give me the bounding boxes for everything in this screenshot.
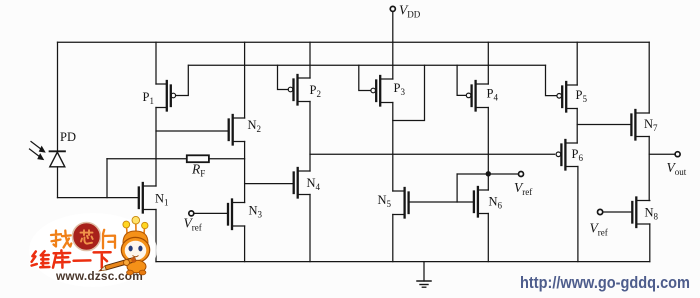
wire N5 source drop: [392, 215, 394, 262]
watermark white glow: [29, 213, 157, 287]
svg-text:N6: N6: [489, 195, 503, 211]
wire N4 gate: [245, 183, 294, 185]
transistor P1: [156, 81, 176, 111]
node Vref terminal 3: [598, 209, 633, 214]
wire P4 source riser: [487, 42, 489, 84]
svg-text:P1: P1: [143, 90, 154, 106]
wire gate-bias rail: [189, 64, 546, 66]
wire P2 gate riser: [278, 65, 289, 89]
transistor P3: [371, 76, 393, 106]
transistor P2: [288, 75, 310, 105]
wire P4 gate riser: [457, 65, 466, 95]
node VDD terminal: [390, 6, 395, 79]
wire N2 source to N3 drain: [244, 142, 246, 203]
watermark text weiku yixia (维库一下): [32, 250, 111, 267]
wire RF left drop: [106, 159, 108, 198]
watermark stamp char pian (片): [103, 230, 115, 249]
wire Vref riser to gate line: [456, 174, 458, 202]
svg-text:PD: PD: [60, 130, 76, 144]
wire P1 source riser: [155, 42, 157, 84]
node Vref terminal 1: [189, 211, 228, 216]
svg-text:P3: P3: [394, 81, 406, 97]
transistor P4: [466, 81, 488, 111]
wire P3 drain vertical: [392, 103, 394, 192]
watermark pencil: [98, 257, 136, 272]
wire P6 drain drop: [577, 167, 579, 262]
wire N2 drain riser: [244, 42, 246, 118]
wire N7 source to N8 drain: [648, 137, 650, 201]
watermark stamp char zhao (找): [51, 231, 71, 248]
wire PD anode down: [57, 167, 59, 198]
wire P5 source riser: [576, 42, 578, 85]
transistor N5: [393, 188, 409, 218]
svg-text:P2: P2: [310, 83, 321, 99]
transistor N1: [139, 183, 156, 213]
node Vref terminal 2: [519, 172, 524, 177]
wire top VDD rail: [58, 41, 650, 43]
watermark stamp char xin (芯): [81, 230, 93, 244]
photodiode PD: [30, 142, 65, 167]
wire P5 gate drop from rail end: [546, 65, 557, 95]
svg-text:RF: RF: [191, 162, 205, 179]
transistor N2: [229, 115, 245, 145]
svg-text:N3: N3: [249, 204, 263, 220]
wire N1 source drop: [155, 210, 157, 262]
svg-text:http://www.go-gddq.com: http://www.go-gddq.com: [520, 273, 690, 292]
wire N6 source drop: [487, 214, 489, 262]
resistor RF: [187, 155, 209, 162]
wire P4 drain to N6 drain: [487, 108, 489, 191]
svg-text:P6: P6: [572, 147, 584, 163]
wire N3 source drop: [244, 226, 246, 262]
wire left rail to photodiode: [57, 42, 59, 151]
svg-text:P5: P5: [576, 88, 588, 104]
wire P3 drain jog to bias rail: [393, 65, 425, 120]
transistor N8: [632, 198, 650, 228]
svg-text:N8: N8: [645, 206, 659, 222]
svg-text:Vout: Vout: [667, 160, 687, 177]
transistor P6: [556, 140, 578, 170]
node junction dot: [486, 171, 491, 176]
wire N8 source drop: [649, 224, 651, 262]
wire N4 source drop: [309, 195, 311, 262]
wire P2 drain to N4 drain: [309, 102, 311, 172]
wire RF left: [107, 158, 187, 160]
wire N7 gate: [577, 124, 631, 126]
wire bottom ground rail: [156, 261, 650, 263]
svg-text:P4: P4: [487, 87, 499, 103]
wire Vref line: [457, 173, 518, 175]
wire Vout tap: [649, 153, 675, 155]
wire P1 drain to N1 drain: [155, 108, 157, 187]
svg-text:Vref: Vref: [514, 180, 532, 197]
transistor N4: [294, 168, 310, 198]
wire N2 gate: [156, 130, 229, 132]
watermark mascot: [98, 216, 150, 275]
transistor N7: [631, 110, 649, 140]
svg-text:VDD: VDD: [399, 3, 421, 20]
wire P5 drain to P6 source: [576, 109, 578, 144]
svg-text:Vref: Vref: [590, 221, 608, 238]
wire P3 gate riser: [359, 65, 371, 90]
svg-text:N4: N4: [307, 176, 321, 192]
wire N7 drain riser: [648, 42, 650, 113]
transistor N6: [474, 187, 488, 217]
wire P2 source riser: [309, 42, 311, 78]
node Vout terminal: [675, 152, 680, 157]
wire N5 N6 gate line: [409, 201, 474, 203]
svg-text:N2: N2: [248, 118, 262, 134]
transistor P5: [557, 82, 577, 112]
svg-text:N1: N1: [155, 192, 169, 208]
ground: [417, 262, 431, 288]
wire middle node to P6 gate: [310, 153, 555, 155]
wire RF right: [209, 158, 245, 160]
svg-text:Vref: Vref: [184, 216, 202, 233]
watermark stamp red circle: [73, 223, 101, 251]
svg-text:N5: N5: [378, 193, 392, 209]
wire PD to N1 gate: [58, 197, 139, 199]
wire P1 gate riser: [176, 65, 189, 95]
svg-text:N7: N7: [644, 117, 658, 133]
transistor N3: [228, 200, 245, 230]
